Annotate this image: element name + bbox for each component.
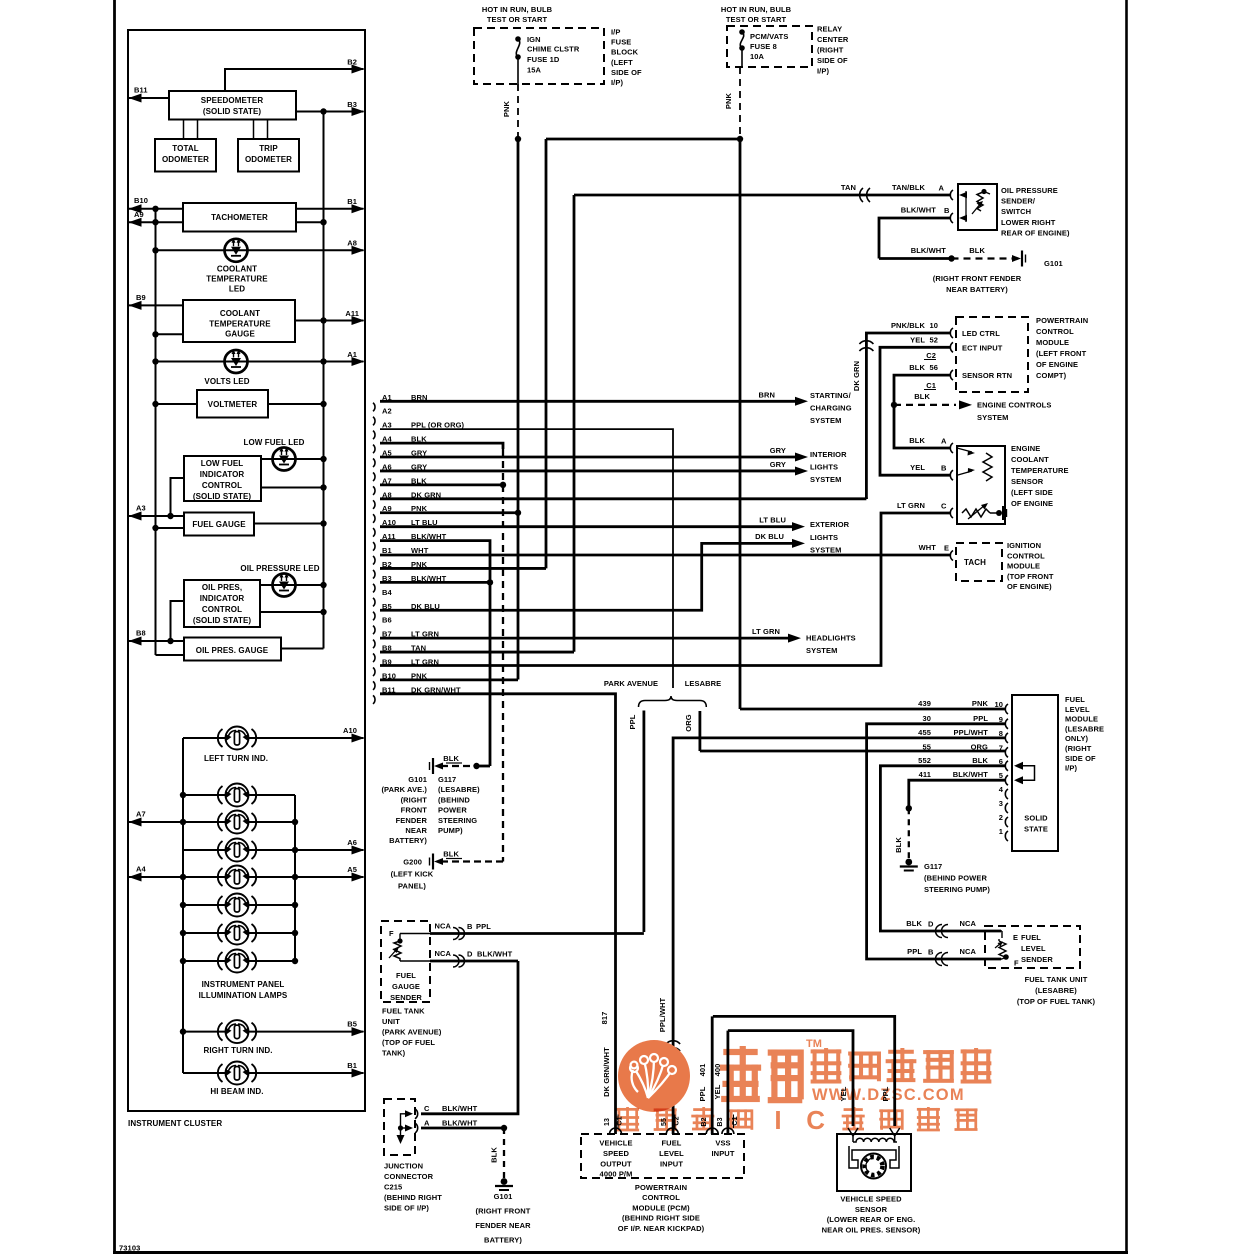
svg-text:PANEL): PANEL) <box>398 882 426 891</box>
svg-text:B: B <box>928 948 934 957</box>
svg-text:B: B <box>467 922 473 931</box>
svg-text:BLK: BLK <box>894 837 903 853</box>
svg-text:RELAY: RELAY <box>817 25 842 34</box>
svg-text:817: 817 <box>600 1012 609 1025</box>
svg-text:STARTING/: STARTING/ <box>810 391 852 400</box>
svg-text:(BEHIND: (BEHIND <box>438 795 470 804</box>
svg-text:A6: A6 <box>347 838 357 847</box>
svg-text:A: A <box>941 437 947 446</box>
svg-text:TACHOMETER: TACHOMETER <box>211 213 268 222</box>
svg-text:OF ENGINE: OF ENGINE <box>1036 360 1078 369</box>
svg-text:NCA: NCA <box>434 949 451 958</box>
svg-text:LEVEL: LEVEL <box>1065 705 1090 714</box>
svg-text:(RIGHT: (RIGHT <box>1065 744 1092 753</box>
svg-text:B3: B3 <box>717 1117 724 1126</box>
svg-text:NCA: NCA <box>434 922 451 931</box>
svg-text:POWER: POWER <box>438 806 467 815</box>
svg-text:TAN: TAN <box>841 183 856 192</box>
svg-text:(LEFT: (LEFT <box>611 58 633 67</box>
svg-text:HI BEAM IND.: HI BEAM IND. <box>210 1087 263 1096</box>
svg-text:SOLID: SOLID <box>1024 814 1048 823</box>
svg-text:LOWER RIGHT: LOWER RIGHT <box>1001 218 1056 227</box>
svg-text:B1: B1 <box>382 546 392 555</box>
svg-text:STEERING PUMP): STEERING PUMP) <box>924 885 990 894</box>
svg-text:BLK/WHT: BLK/WHT <box>953 770 989 779</box>
svg-text:(BEHIND RIGHT SIDE: (BEHIND RIGHT SIDE <box>622 1214 700 1223</box>
svg-text:(RIGHT FRONT: (RIGHT FRONT <box>476 1207 531 1216</box>
svg-text:DK GRN/WHT: DK GRN/WHT <box>602 1047 611 1097</box>
svg-text:FUEL: FUEL <box>1065 695 1085 704</box>
svg-text:A10: A10 <box>343 726 357 735</box>
svg-text:BLK/WHT: BLK/WHT <box>901 206 937 215</box>
svg-text:BATTERY): BATTERY) <box>389 836 427 845</box>
svg-text:(LEFT KICK: (LEFT KICK <box>391 870 434 879</box>
svg-text:OIL PRESSURE LED: OIL PRESSURE LED <box>240 564 319 573</box>
svg-text:VSS: VSS <box>715 1139 730 1148</box>
svg-text:FUEL: FUEL <box>1021 933 1041 942</box>
svg-text:FRONT: FRONT <box>401 806 428 815</box>
svg-text:PNK: PNK <box>972 699 989 708</box>
svg-text:HOT IN RUN, BULB: HOT IN RUN, BULB <box>482 5 553 14</box>
svg-text:PPL/WHT: PPL/WHT <box>954 728 989 737</box>
svg-text:PARK AVENUE: PARK AVENUE <box>604 679 658 688</box>
svg-text:A8: A8 <box>347 239 357 248</box>
svg-text:STATE: STATE <box>1024 825 1048 834</box>
svg-text:SENDER: SENDER <box>1021 955 1053 964</box>
svg-text:VOLTS LED: VOLTS LED <box>204 377 249 386</box>
svg-text:SPEED: SPEED <box>603 1149 629 1158</box>
svg-text:SIDE OF: SIDE OF <box>1065 754 1096 763</box>
svg-text:(SOLID STATE): (SOLID STATE) <box>193 492 252 501</box>
svg-text:BLK: BLK <box>909 363 925 372</box>
svg-text:A: A <box>424 1119 430 1128</box>
svg-text:MODULE (PCM): MODULE (PCM) <box>632 1203 690 1212</box>
svg-text:OIL PRES,: OIL PRES, <box>202 583 242 592</box>
svg-text:I: I <box>774 1105 781 1135</box>
svg-text:C: C <box>424 1104 430 1113</box>
svg-text:A2: A2 <box>382 407 392 416</box>
svg-text:FENDER NEAR: FENDER NEAR <box>475 1221 531 1230</box>
svg-text:PNK/BLK: PNK/BLK <box>891 321 926 330</box>
svg-text:ILLUMINATION LAMPS: ILLUMINATION LAMPS <box>199 991 288 1000</box>
svg-text:PPL: PPL <box>698 1086 707 1101</box>
svg-text:BLK/WHT: BLK/WHT <box>911 246 947 255</box>
svg-text:SIDE OF: SIDE OF <box>817 56 848 65</box>
svg-text:CHIME CLSTR: CHIME CLSTR <box>527 45 580 54</box>
svg-text:SENSOR: SENSOR <box>855 1205 888 1214</box>
svg-text:D: D <box>467 950 473 959</box>
svg-text:PNK: PNK <box>502 100 511 117</box>
svg-text:OF ENGINE): OF ENGINE) <box>1007 582 1052 591</box>
svg-text:A9: A9 <box>134 210 144 219</box>
svg-text:INTERIOR: INTERIOR <box>810 450 847 459</box>
svg-text:G117: G117 <box>438 775 456 784</box>
svg-text:CENTER: CENTER <box>817 35 849 44</box>
svg-text:BLK: BLK <box>909 436 925 445</box>
svg-text:LT GRN: LT GRN <box>752 627 780 636</box>
svg-text:BLK: BLK <box>972 756 988 765</box>
svg-text:C1: C1 <box>926 381 936 390</box>
svg-text:DK GRN: DK GRN <box>852 361 861 391</box>
svg-text:73103: 73103 <box>119 1244 140 1253</box>
svg-text:MODULE: MODULE <box>1036 338 1069 347</box>
svg-text:C: C <box>941 502 947 511</box>
svg-text:D: D <box>928 920 934 929</box>
svg-text:GAUGE: GAUGE <box>225 330 255 339</box>
svg-text:BLK: BLK <box>914 392 930 401</box>
svg-text:455: 455 <box>918 728 931 737</box>
svg-text:A3: A3 <box>136 504 146 513</box>
svg-text:NEAR BATTERY): NEAR BATTERY) <box>946 285 1008 294</box>
svg-text:(LEFT SIDE: (LEFT SIDE <box>1011 488 1053 497</box>
svg-text:BLK: BLK <box>443 754 459 763</box>
svg-text:(TOP OF FUEL: (TOP OF FUEL <box>382 1038 435 1047</box>
svg-text:(LESABRE): (LESABRE) <box>1035 986 1077 995</box>
svg-text:SYSTEM: SYSTEM <box>977 413 1008 422</box>
svg-text:(SOLID STATE): (SOLID STATE) <box>193 616 252 625</box>
svg-text:CONTROL: CONTROL <box>202 481 242 490</box>
svg-text:ENGINE CONTROLS: ENGINE CONTROLS <box>977 401 1051 410</box>
svg-text:B4: B4 <box>382 588 393 597</box>
svg-text:LOW FUEL LED: LOW FUEL LED <box>243 438 304 447</box>
svg-text:F: F <box>389 929 394 938</box>
svg-text:SYSTEM: SYSTEM <box>810 475 841 484</box>
svg-text:BLK/WHT: BLK/WHT <box>442 1104 478 1113</box>
svg-text:SIDE OF I/P): SIDE OF I/P) <box>384 1204 429 1213</box>
svg-text:(SOLID STATE): (SOLID STATE) <box>203 107 262 116</box>
svg-text:10: 10 <box>929 321 938 330</box>
svg-text:OIL PRESSURE: OIL PRESSURE <box>1001 186 1058 195</box>
svg-text:B1: B1 <box>347 197 357 206</box>
svg-text:15A: 15A <box>527 66 542 75</box>
svg-text:56: 56 <box>929 363 938 372</box>
svg-text:RIGHT TURN IND.: RIGHT TURN IND. <box>203 1046 272 1055</box>
svg-text:SENSOR: SENSOR <box>1011 477 1044 486</box>
svg-text:JUNCTION: JUNCTION <box>384 1162 423 1171</box>
svg-text:BLK/WHT: BLK/WHT <box>442 1119 478 1128</box>
svg-text:BLK: BLK <box>443 850 459 859</box>
svg-text:ONLY): ONLY) <box>1065 734 1089 743</box>
svg-text:POWERTRAIN: POWERTRAIN <box>1036 316 1088 325</box>
svg-text:B2: B2 <box>347 58 357 67</box>
svg-text:C2: C2 <box>926 351 936 360</box>
svg-text:4000 P/M: 4000 P/M <box>600 1170 633 1179</box>
svg-text:VOLTMETER: VOLTMETER <box>208 400 258 409</box>
svg-text:I/P): I/P) <box>611 78 623 87</box>
svg-text:GAUGE: GAUGE <box>392 982 420 991</box>
svg-text:HOT IN RUN, BULB: HOT IN RUN, BULB <box>721 5 792 14</box>
svg-text:B9: B9 <box>382 657 392 666</box>
svg-text:TM: TM <box>806 1038 822 1050</box>
svg-text:I/P): I/P) <box>817 67 829 76</box>
svg-text:PUMP): PUMP) <box>438 826 463 835</box>
svg-text:B6: B6 <box>382 616 392 625</box>
svg-text:(TOP FRONT: (TOP FRONT <box>1007 572 1054 581</box>
svg-text:CONTROL: CONTROL <box>202 605 242 614</box>
svg-text:LOW FUEL: LOW FUEL <box>201 459 244 468</box>
svg-text:SYSTEM: SYSTEM <box>806 646 837 655</box>
svg-text:13: 13 <box>604 1118 611 1126</box>
svg-text:A7: A7 <box>136 810 146 819</box>
svg-text:PPL: PPL <box>628 714 637 729</box>
svg-text:OUTPUT: OUTPUT <box>600 1160 632 1169</box>
svg-text:LED: LED <box>229 285 245 294</box>
svg-text:PPL/WHT: PPL/WHT <box>658 997 667 1032</box>
svg-text:FUSE 8: FUSE 8 <box>750 42 777 51</box>
svg-text:BLK: BLK <box>969 246 985 255</box>
svg-text:EXTERIOR: EXTERIOR <box>810 520 850 529</box>
svg-text:SPEEDOMETER: SPEEDOMETER <box>201 96 264 105</box>
svg-text:SENDER: SENDER <box>390 993 422 1002</box>
svg-text:552: 552 <box>918 756 931 765</box>
svg-text:OF ENGINE: OF ENGINE <box>1011 499 1053 508</box>
svg-text:G101: G101 <box>494 1192 513 1201</box>
svg-text:NCA: NCA <box>959 947 976 956</box>
svg-text:B1: B1 <box>347 1061 357 1070</box>
svg-text:SYSTEM: SYSTEM <box>810 546 841 555</box>
svg-text:UNIT: UNIT <box>382 1017 400 1026</box>
svg-text:SYSTEM: SYSTEM <box>810 416 841 425</box>
svg-text:BRN: BRN <box>758 390 775 399</box>
svg-text:FUEL TANK UNIT: FUEL TANK UNIT <box>1025 975 1088 984</box>
svg-text:LEFT TURN IND.: LEFT TURN IND. <box>204 754 268 763</box>
svg-text:STEERING: STEERING <box>438 816 477 825</box>
svg-text:LEVEL: LEVEL <box>659 1149 684 1158</box>
svg-text:(RIGHT: (RIGHT <box>401 795 428 804</box>
svg-text:(PARK AVE.): (PARK AVE.) <box>381 785 427 794</box>
svg-text:INSTRUMENT CLUSTER: INSTRUMENT CLUSTER <box>128 1119 222 1128</box>
svg-text:(LOWER REAR OF ENG.: (LOWER REAR OF ENG. <box>827 1215 916 1224</box>
svg-text:COOLANT: COOLANT <box>217 265 257 274</box>
svg-text:COOLANT: COOLANT <box>1011 455 1049 464</box>
svg-text:B10: B10 <box>134 196 148 205</box>
svg-text:TRIP: TRIP <box>259 144 278 153</box>
svg-text:1: 1 <box>999 827 1003 836</box>
svg-text:INDICATOR: INDICATOR <box>200 594 245 603</box>
svg-text:LED CTRL: LED CTRL <box>962 329 1000 338</box>
svg-text:E: E <box>944 544 949 553</box>
svg-text:(LESABRE): (LESABRE) <box>438 785 480 794</box>
svg-text:ORG: ORG <box>684 714 693 731</box>
svg-text:I/P): I/P) <box>1065 764 1077 773</box>
svg-text:GRY: GRY <box>770 446 786 455</box>
svg-text:(RIGHT FRONT FENDER: (RIGHT FRONT FENDER <box>933 274 1022 283</box>
svg-text:4: 4 <box>999 785 1004 794</box>
svg-text:B: B <box>941 464 947 473</box>
svg-text:FUEL: FUEL <box>662 1139 682 1148</box>
svg-text:SWITCH: SWITCH <box>1001 207 1031 216</box>
svg-text:SENDER/: SENDER/ <box>1001 197 1036 206</box>
svg-text:GRY: GRY <box>770 460 786 469</box>
svg-text:(BEHIND RIGHT: (BEHIND RIGHT <box>384 1193 442 1202</box>
svg-text:TANK): TANK) <box>382 1049 406 1058</box>
svg-text:(LEFT FRONT: (LEFT FRONT <box>1036 349 1087 358</box>
svg-text:PPL: PPL <box>907 947 922 956</box>
svg-text:FUSE 1D: FUSE 1D <box>527 55 560 64</box>
svg-text:FUEL TANK: FUEL TANK <box>382 1007 425 1016</box>
svg-text:G101: G101 <box>408 775 427 784</box>
svg-text:10A: 10A <box>750 52 765 61</box>
svg-text:HEADLIGHTS: HEADLIGHTS <box>806 634 856 643</box>
svg-text:TEMPERATURE: TEMPERATURE <box>209 320 271 329</box>
svg-text:A1: A1 <box>347 350 357 359</box>
svg-text:(LESABRE: (LESABRE <box>1065 724 1104 733</box>
svg-text:(BEHIND POWER: (BEHIND POWER <box>924 874 987 883</box>
svg-text:TACH: TACH <box>964 558 986 567</box>
svg-text:IGN: IGN <box>527 35 541 44</box>
svg-text:DK BLU: DK BLU <box>755 532 784 541</box>
svg-text:B11: B11 <box>134 86 148 95</box>
svg-text:ENGINE: ENGINE <box>1011 444 1040 453</box>
svg-text:LIGHTS: LIGHTS <box>810 533 838 542</box>
svg-text:OIL PRES. GAUGE: OIL PRES. GAUGE <box>196 646 269 655</box>
svg-text:WWW.DZSC.COM: WWW.DZSC.COM <box>812 1086 965 1104</box>
svg-text:411: 411 <box>919 770 931 779</box>
svg-text:NCA: NCA <box>959 919 976 928</box>
svg-text:INPUT: INPUT <box>660 1160 683 1169</box>
svg-text:YEL: YEL <box>910 335 925 344</box>
svg-text:BLK: BLK <box>906 919 922 928</box>
svg-text:G117: G117 <box>924 862 942 871</box>
svg-text:BATTERY): BATTERY) <box>484 1236 522 1245</box>
svg-text:IGNITION: IGNITION <box>1007 541 1041 550</box>
svg-text:A4: A4 <box>136 865 147 874</box>
svg-text:FUEL: FUEL <box>396 971 416 980</box>
svg-text:2: 2 <box>999 813 1003 822</box>
svg-text:401: 401 <box>698 1064 707 1077</box>
svg-text:NEAR OIL PRES. SENSOR): NEAR OIL PRES. SENSOR) <box>822 1225 921 1234</box>
svg-text:LT GRN: LT GRN <box>411 657 439 666</box>
svg-text:YEL: YEL <box>910 463 925 472</box>
svg-text:CONTROL: CONTROL <box>1036 327 1074 336</box>
svg-text:C215: C215 <box>384 1183 402 1192</box>
svg-text:30: 30 <box>922 714 931 723</box>
svg-text:PPL: PPL <box>973 714 988 723</box>
svg-text:PPL: PPL <box>476 922 491 931</box>
svg-text:MODULE: MODULE <box>1065 715 1098 724</box>
svg-text:ODOMETER: ODOMETER <box>162 155 209 164</box>
svg-text:TEMPERATURE: TEMPERATURE <box>1011 466 1069 475</box>
svg-text:C: C <box>806 1105 825 1135</box>
svg-text:F: F <box>1014 959 1019 968</box>
svg-text:439: 439 <box>918 699 931 708</box>
svg-text:INSTRUMENT PANEL: INSTRUMENT PANEL <box>202 980 285 989</box>
svg-text:YEL: YEL <box>713 1084 722 1099</box>
svg-text:REAR OF ENGINE): REAR OF ENGINE) <box>1001 228 1070 237</box>
svg-text:ODOMETER: ODOMETER <box>245 155 292 164</box>
svg-text:WHT: WHT <box>411 546 429 555</box>
svg-text:CONTROL: CONTROL <box>1007 551 1045 560</box>
svg-text:VEHICLE SPEED: VEHICLE SPEED <box>840 1195 902 1204</box>
svg-text:(PARK AVENUE): (PARK AVENUE) <box>382 1028 442 1037</box>
svg-text:SIDE OF: SIDE OF <box>611 68 642 77</box>
svg-text:INPUT: INPUT <box>712 1149 735 1158</box>
svg-text:B3: B3 <box>347 100 357 109</box>
svg-text:(TOP OF FUEL TANK): (TOP OF FUEL TANK) <box>1017 997 1096 1006</box>
svg-text:BLOCK: BLOCK <box>611 48 639 57</box>
svg-text:I/P: I/P <box>611 28 620 37</box>
svg-text:TOTAL: TOTAL <box>172 144 198 153</box>
svg-text:E: E <box>1013 933 1018 942</box>
svg-text:B5: B5 <box>347 1020 357 1029</box>
svg-text:FUEL GAUGE: FUEL GAUGE <box>192 520 246 529</box>
svg-text:G200: G200 <box>403 858 422 867</box>
svg-text:TEMPERATURE: TEMPERATURE <box>206 275 268 284</box>
svg-text:LEVEL: LEVEL <box>1021 944 1046 953</box>
svg-text:CHARGING: CHARGING <box>810 404 852 413</box>
svg-text:FENDER: FENDER <box>396 816 428 825</box>
svg-text:CONTROL: CONTROL <box>642 1193 680 1202</box>
svg-text:BLK/WHT: BLK/WHT <box>477 950 513 959</box>
svg-text:TAN/BLK: TAN/BLK <box>892 183 926 192</box>
svg-text:TEST OR START: TEST OR START <box>726 15 787 24</box>
svg-text:LESABRE: LESABRE <box>685 679 722 688</box>
svg-text:52: 52 <box>929 335 938 344</box>
svg-text:PNK: PNK <box>724 92 733 109</box>
svg-text:COMPT): COMPT) <box>1036 371 1067 380</box>
svg-text:POWERTRAIN: POWERTRAIN <box>635 1183 687 1192</box>
svg-text:OF I/P. NEAR KICKPAD): OF I/P. NEAR KICKPAD) <box>618 1224 705 1233</box>
svg-text:WHT: WHT <box>919 543 937 552</box>
svg-text:3: 3 <box>999 799 1003 808</box>
svg-text:A5: A5 <box>347 865 357 874</box>
svg-text:FUSE: FUSE <box>611 38 631 47</box>
svg-text:A: A <box>938 184 944 193</box>
svg-text:NEAR: NEAR <box>405 826 427 835</box>
svg-text:MODULE: MODULE <box>1007 562 1040 571</box>
svg-text:(RIGHT: (RIGHT <box>817 46 844 55</box>
svg-text:A11: A11 <box>345 309 359 318</box>
svg-text:ECT INPUT: ECT INPUT <box>962 343 1003 352</box>
svg-text:B8: B8 <box>136 629 146 638</box>
svg-text:TEST OR START: TEST OR START <box>487 15 548 24</box>
svg-text:VEHICLE: VEHICLE <box>599 1139 632 1148</box>
svg-text:B: B <box>944 206 950 215</box>
svg-text:LT GRN: LT GRN <box>897 501 925 510</box>
svg-text:INDICATOR: INDICATOR <box>200 470 245 479</box>
svg-text:BLK: BLK <box>490 1147 499 1163</box>
svg-text:SENSOR RTN: SENSOR RTN <box>962 371 1012 380</box>
svg-text:B9: B9 <box>136 293 146 302</box>
svg-text:CONNECTOR: CONNECTOR <box>384 1172 434 1181</box>
svg-text:COOLANT: COOLANT <box>220 309 260 318</box>
svg-text:LIGHTS: LIGHTS <box>810 463 838 472</box>
svg-text:G101: G101 <box>1044 259 1063 268</box>
svg-text:PCM/VATS: PCM/VATS <box>750 32 788 41</box>
svg-text:LT BLU: LT BLU <box>759 516 786 525</box>
